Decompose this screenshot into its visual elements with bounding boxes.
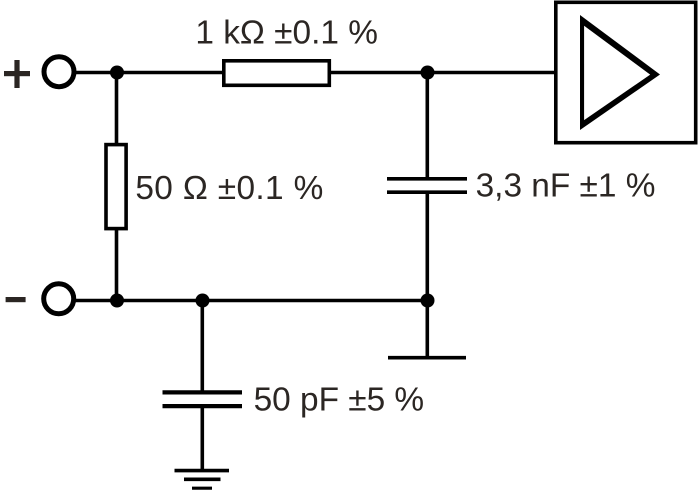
op-amp U1 box [556, 2, 696, 142]
wire top rail left (T1 to R1) [74, 71, 224, 75]
wire from R2 down to node C [115, 229, 119, 301]
svg-text:50 pF ±5 %: 50 pF ±5 % [254, 382, 425, 419]
wire C1 bottom plate to node E [425, 192, 429, 300]
node D junction dot bottom-middle [196, 294, 210, 308]
capacitor C2 50 pF top plate [163, 390, 243, 394]
op-amp U1 triangle [580, 15, 660, 130]
terminal T1 (+ input) [44, 57, 74, 87]
capacitor C2 50 pF bottom plate [163, 404, 243, 408]
node B junction dot top-right [421, 66, 435, 80]
wire bottom rail (T2 to node E) [74, 299, 428, 303]
node A junction dot top-left [110, 66, 124, 80]
capacitor C1 3,3 nF bottom plate [387, 190, 467, 194]
svg-text:1 kΩ ±0.1 %: 1 kΩ ±0.1 % [195, 14, 378, 51]
terminal T2 (- input) [44, 284, 74, 314]
resistor R1 1 kOhm body [224, 61, 329, 86]
op-amp U1 triangle inner [584, 26, 650, 120]
svg-text:3,3 nF ±1 %: 3,3 nF ±1 % [476, 168, 656, 205]
wire node B down to C1 top plate [425, 73, 429, 179]
wire top rail right (R1 to amplifier) [330, 71, 558, 75]
wire node D down to C2 top plate [201, 301, 205, 393]
termination bar (ground plate) under C1 branch [388, 356, 466, 360]
ground symbol bar 3 [192, 487, 212, 490]
node E junction dot [421, 294, 435, 308]
svg-text:50 Ω ±0.1 %: 50 Ω ±0.1 % [135, 170, 323, 207]
wire from node A down to R2 [115, 73, 119, 146]
minus symbol (- input polarity) [6, 297, 26, 302]
ground symbol bar 1 [175, 469, 230, 473]
wire C2 bottom plate to ground [201, 406, 205, 471]
capacitor C1 3,3 nF top plate [387, 177, 467, 181]
resistor R2 50 Ohm body [106, 145, 126, 229]
wire node E down to termination bar [425, 301, 429, 358]
plus symbol (+ input polarity) [4, 60, 30, 88]
node C junction dot bottom-left [110, 294, 124, 308]
ground symbol bar 2 [184, 477, 221, 481]
